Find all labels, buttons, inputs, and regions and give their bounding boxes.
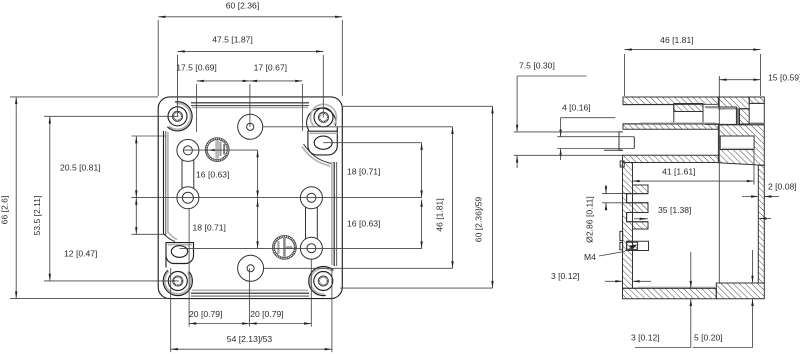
dim 66 [2.6] overall height bbox=[0, 97, 168, 299]
lid right block hatch with screw pocket bbox=[718, 125, 764, 165]
hinge tabs outside wall bbox=[620, 231, 623, 240]
svg-text:46 [1.81]: 46 [1.81] bbox=[660, 35, 693, 45]
lid seam line right edge bbox=[332, 162, 337, 266]
dim 12 [0.47] bbox=[64, 198, 166, 259]
lid fixing hole top-center bbox=[238, 114, 263, 139]
dim 17 [0.67] bbox=[250, 63, 303, 131]
inner floor line bbox=[633, 287, 717, 289]
svg-text:17.5 [0.69]: 17.5 [0.69] bbox=[176, 63, 217, 73]
slot outlines bbox=[627, 194, 648, 203]
dim 2 [0.08] wall bbox=[742, 182, 797, 198]
dim 15 [0.59] bbox=[719, 73, 800, 83]
mounting dog-bone left (two bosses joined) bbox=[177, 139, 199, 208]
svg-text:41 [1.61]: 41 [1.61] bbox=[662, 167, 695, 177]
lid inner block hatch bbox=[674, 104, 703, 112]
dim 46 [1.81] hole spacing vertical bbox=[263, 127, 454, 268]
cable entry pocket bottom-left bbox=[164, 232, 194, 268]
dim 17.5 [0.69] bbox=[176, 63, 250, 132]
extension line row3 bbox=[180, 248, 422, 250]
dim 3 [0.12] bottom bbox=[631, 252, 692, 348]
body right wall hatch bbox=[758, 165, 764, 283]
M4 insert pocket bbox=[627, 241, 649, 250]
dim 41 [1.61] bbox=[632, 150, 754, 185]
corner boss loop bottom-left bbox=[163, 270, 192, 295]
svg-text:15 [0.59]: 15 [0.59] bbox=[768, 73, 800, 83]
svg-text:17 [0.67]: 17 [0.67] bbox=[254, 63, 287, 73]
dim 20 [0.79] bottom left bbox=[189, 209, 249, 327]
lid fixing hole bottom-center bbox=[238, 255, 264, 281]
dim 18 [0.71] right side bbox=[347, 143, 423, 198]
dim 3 [0.12] wall left bbox=[551, 271, 651, 282]
svg-text:2 [0.08]: 2 [0.08] bbox=[768, 182, 797, 192]
lid seam line left edge bbox=[164, 131, 168, 234]
dim 5 [0.20] bottom bbox=[693, 250, 754, 348]
lid screw top-left bbox=[168, 107, 187, 126]
gray shading accents bbox=[640, 122, 716, 124]
body bottom left hatch bbox=[623, 288, 717, 299]
rib blocks with cable slots bbox=[633, 185, 649, 194]
flange groove lines bbox=[633, 137, 635, 149]
dim 20 [0.79] bottom right bbox=[249, 259, 311, 326]
svg-text:4 [0.16]: 4 [0.16] bbox=[562, 103, 591, 113]
lid seam line bottom edge bbox=[191, 290, 309, 296]
svg-text:M4: M4 bbox=[584, 252, 596, 262]
dim 47.5 [1.87] screw spacing bbox=[178, 35, 324, 118]
lid flange bbox=[619, 132, 623, 150]
svg-text:20.5 [0.81]: 20.5 [0.81] bbox=[60, 162, 101, 172]
svg-text:53.5 [2.11]: 53.5 [2.11] bbox=[32, 196, 42, 236]
svg-text:60 [2.36]/59: 60 [2.36]/59 bbox=[474, 197, 484, 243]
extension line row1 bbox=[184, 149, 258, 151]
svg-text:18 [0.71]: 18 [0.71] bbox=[193, 222, 226, 232]
dim 7.5 [0.30] bbox=[516, 61, 587, 169]
svg-text:3 [0.12]: 3 [0.12] bbox=[551, 271, 580, 281]
svg-text:46 [1.81]: 46 [1.81] bbox=[434, 198, 444, 231]
screw boss with slot upper bbox=[205, 138, 229, 162]
svg-text:3 [0.12]: 3 [0.12] bbox=[631, 333, 660, 343]
cable entry pocket top-right bbox=[302, 127, 338, 166]
lid screw bottom-left bbox=[168, 272, 187, 291]
enclosure outer body outline bbox=[158, 97, 342, 299]
label M4 bbox=[584, 245, 638, 263]
dim Ø2.86 [0.11] bbox=[585, 185, 627, 243]
corner boss loop top-right bbox=[307, 104, 337, 130]
extension line pocket TR leader bbox=[323, 142, 421, 144]
svg-text:60 [2.36]: 60 [2.36] bbox=[226, 1, 259, 11]
body left wall hatch bbox=[623, 163, 633, 289]
svg-text:16 [0.63]: 16 [0.63] bbox=[196, 169, 229, 179]
svg-text:66 [2.6]: 66 [2.6] bbox=[0, 196, 10, 225]
flange level lines L1-L4 bbox=[514, 131, 619, 133]
svg-text:20 [0.79]: 20 [0.79] bbox=[189, 309, 222, 319]
body bottom right hatch bbox=[716, 283, 764, 299]
lid screw top-right bbox=[314, 108, 333, 127]
dim 18 [0.71] inner left bbox=[193, 198, 259, 249]
dim 60 [2.36]/59 lid height bbox=[340, 106, 494, 288]
screw boss with slot lower bbox=[272, 235, 296, 259]
mounting dog-bone right (two bosses joined) bbox=[300, 187, 322, 259]
dim 16 [0.63] right side bbox=[347, 200, 423, 249]
corner boss loop bottom-right bbox=[309, 266, 334, 295]
svg-text:20 [0.79]: 20 [0.79] bbox=[250, 309, 283, 319]
svg-text:54 [2.13]/53: 54 [2.13]/53 bbox=[227, 334, 273, 344]
dim 16 [0.63] inner left bbox=[196, 150, 259, 198]
body rim hatch bbox=[623, 155, 719, 162]
svg-text:47.5 [1.87]: 47.5 [1.87] bbox=[212, 35, 253, 45]
dim 53.5 [2.11] screw spacing vertical bbox=[32, 116, 179, 281]
dim 54 [2.13]/53 bottom bbox=[171, 268, 332, 352]
svg-text:35 [1.38]: 35 [1.38] bbox=[658, 205, 691, 215]
svg-text:16 [0.63]: 16 [0.63] bbox=[347, 218, 380, 228]
seal bar dark bbox=[736, 108, 739, 125]
inner wall line 15mm bbox=[718, 76, 720, 283]
lid bottom wall hatch bbox=[623, 124, 718, 129]
lid cavity outlines bbox=[623, 105, 674, 124]
svg-text:7.5 [0.30]: 7.5 [0.30] bbox=[519, 61, 555, 71]
svg-text:5 [0.20]: 5 [0.20] bbox=[694, 333, 723, 343]
corner boss loop top-left bbox=[167, 102, 192, 131]
lid seam line top edge bbox=[191, 103, 309, 108]
dim 46 [1.81] lid width bbox=[625, 35, 761, 96]
dim 20.5 [0.81] bbox=[60, 136, 166, 198]
dim 4 [0.16] bbox=[559, 103, 615, 161]
svg-text:Ø2.86 [0.11]: Ø2.86 [0.11] bbox=[585, 196, 595, 243]
extension line row2 (long) bbox=[132, 197, 422, 199]
dim 35 [1.38] bbox=[634, 205, 771, 220]
svg-text:12 [0.47]: 12 [0.47] bbox=[64, 249, 97, 259]
lid top wall hatch bbox=[623, 97, 718, 105]
lid hatch right of seal bbox=[740, 109, 750, 124]
svg-text:18 [0.71]: 18 [0.71] bbox=[347, 166, 380, 176]
rim ledge left bbox=[620, 161, 624, 167]
dim 60 [2.36] top width bbox=[158, 1, 342, 96]
lid screw bottom-right bbox=[314, 272, 333, 291]
